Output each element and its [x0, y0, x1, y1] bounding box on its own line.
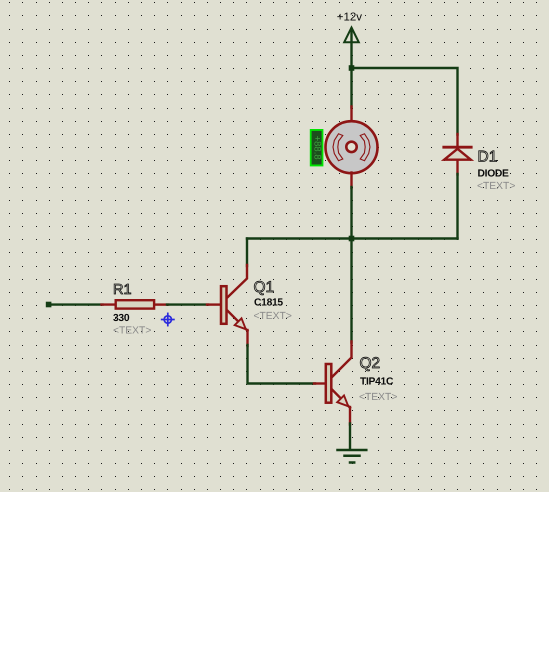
wire top rail to diode — [352, 68, 458, 135]
svg-text:330: 330 — [113, 313, 130, 324]
svg-text:DIODE: DIODE — [478, 169, 510, 180]
wire Q2 emitter to ground — [349, 407, 351, 450]
svg-text:+12v: +12v — [337, 12, 363, 24]
junction node mid — [349, 236, 355, 242]
wire input to R1 — [48, 303, 103, 305]
svg-text:TIP41C: TIP41C — [360, 376, 394, 387]
svg-text:<TEXT>: <TEXT> — [113, 326, 151, 337]
svg-text:<TEXT>: <TEXT> — [477, 181, 515, 192]
motor body — [326, 121, 378, 173]
svg-text:+88.8: +88.8 — [311, 136, 322, 160]
diode D1 — [444, 134, 471, 175]
motor top pin — [350, 107, 352, 123]
power terminal +12V — [344, 28, 359, 69]
svg-text:<TEXT>: <TEXT> — [359, 392, 397, 403]
ground — [338, 450, 367, 463]
wire diode to mid rail — [456, 174, 458, 239]
svg-text:<TEXT>: <TEXT> — [254, 311, 292, 322]
wire power to motor — [350, 68, 352, 108]
wire mid junction down — [350, 239, 352, 343]
svg-text:D1: D1 — [478, 149, 498, 166]
resistor R1 — [102, 300, 169, 308]
motor rpm readout +88.8 — [310, 129, 324, 166]
transistor Q1 — [207, 286, 248, 331]
wire Q2 collector red — [332, 342, 352, 378]
svg-text:Q1: Q1 — [254, 279, 275, 296]
wire Q1 emitter to Q2 base — [248, 330, 316, 384]
wire R1 to Q1 base — [167, 303, 208, 305]
motor bottom pin — [350, 173, 352, 189]
wire Q1 collector — [228, 239, 247, 298]
svg-text:R1: R1 — [113, 282, 132, 298]
wire motor to mid junction — [350, 187, 352, 239]
svg-text:Q2: Q2 — [360, 355, 381, 372]
wire mid rail — [247, 237, 458, 239]
svg-text:C1815: C1815 — [254, 297, 283, 308]
transistor Q2 — [314, 364, 350, 408]
input terminal node — [46, 302, 52, 308]
junction node top — [349, 65, 355, 71]
origin marker — [162, 313, 174, 325]
